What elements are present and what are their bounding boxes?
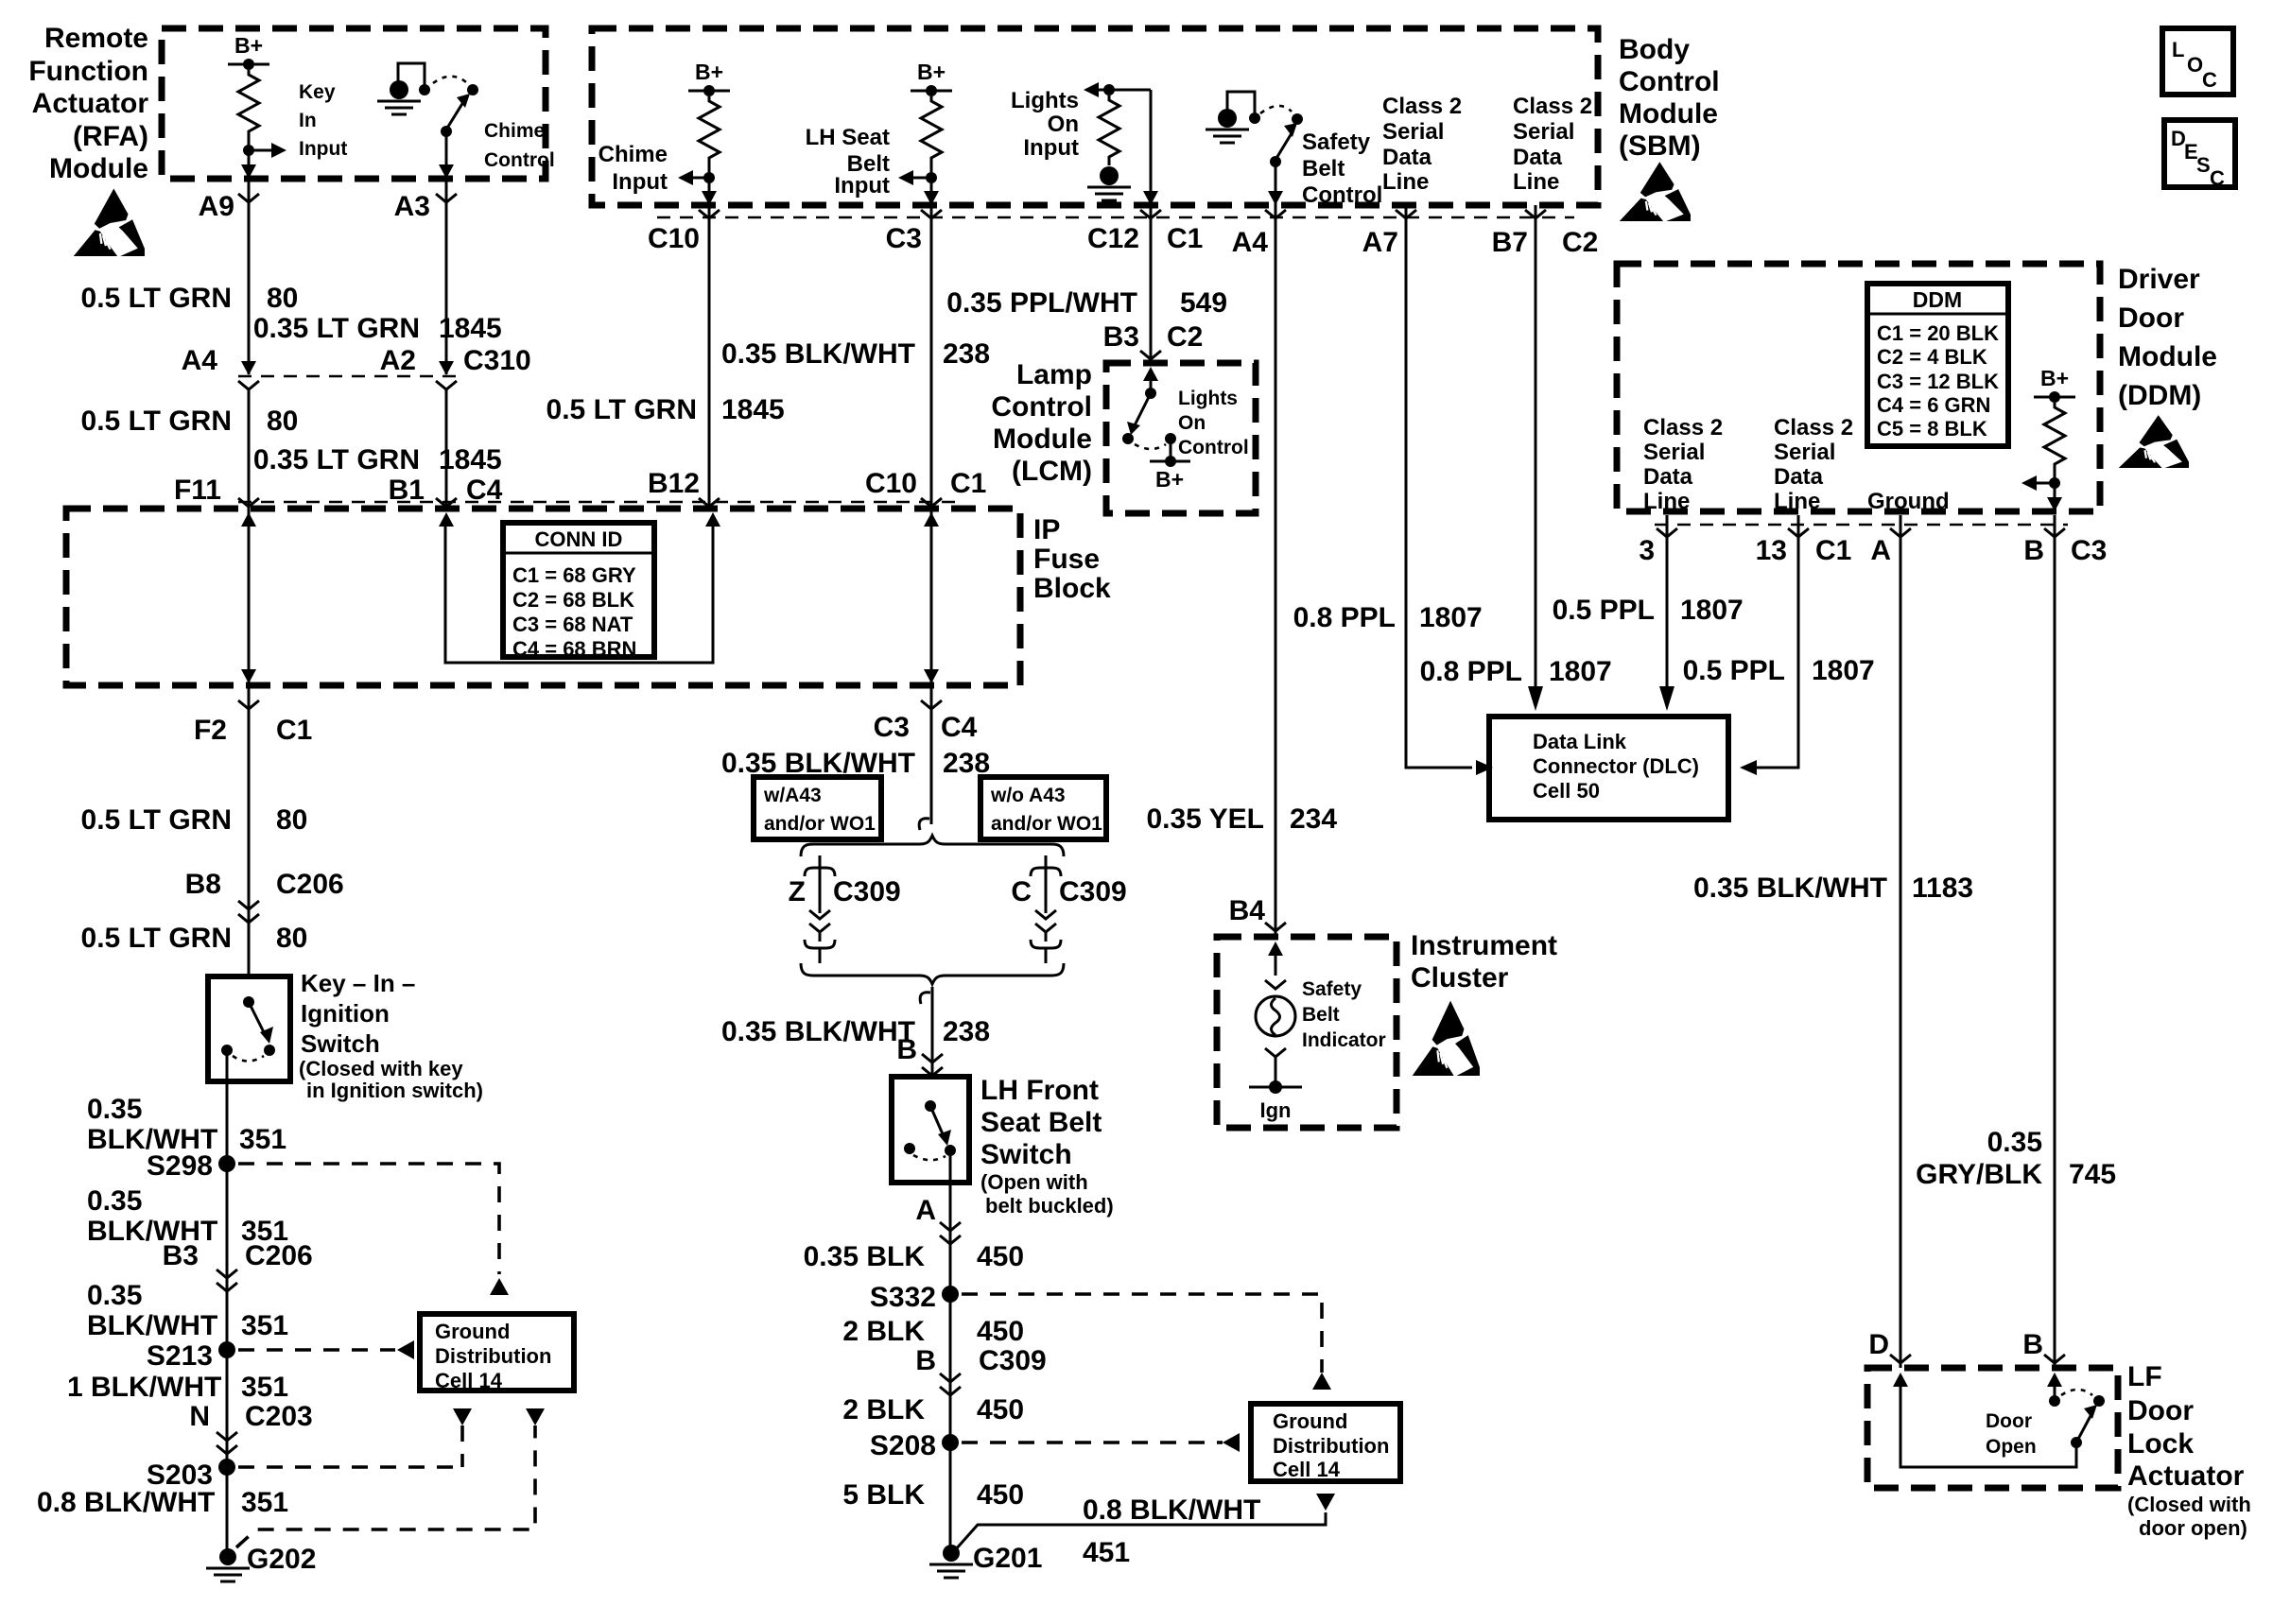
svg-text:238: 238 [943,338,990,370]
svg-text:2 BLK: 2 BLK [842,1394,925,1425]
wire 80 A9-A4 [248,179,251,374]
svg-text:0.5 LT GRN: 0.5 LT GRN [81,283,232,314]
wire chime down [708,166,711,205]
lights on input arrow/wire [1084,82,1099,97]
svg-text:1845: 1845 [439,444,502,475]
CONN ID table [503,523,654,661]
svg-text:C1 = 68 GRY: C1 = 68 GRY [512,563,636,587]
svg-text:80: 80 [276,804,307,836]
svg-text:C309: C309 [1059,876,1127,907]
svg-text:Line: Line [1774,489,1820,514]
splice S298 [218,1155,235,1172]
safety belt control ground [1227,92,1255,115]
svg-text:and/or WO1: and/or WO1 [991,813,1102,835]
SBM seat belt B+ [911,90,952,93]
SBM module box [592,28,1598,205]
key-in ignition switch box [208,976,290,1081]
svg-text:Module: Module [49,153,148,184]
svg-text:CONN ID: CONN ID [535,527,623,551]
key in input label [299,81,347,160]
chime pass-through wire in IP block [439,512,454,527]
wire 1183 A-D [1900,515,1902,1368]
svg-text:DDM: DDM [1913,287,1962,312]
svg-text:Actuator: Actuator [32,88,149,119]
svg-text:1845: 1845 [721,394,785,425]
svg-text:(Closed with key: (Closed with key [299,1057,463,1080]
svg-text:B7: B7 [1492,227,1528,258]
svg-text:Block: Block [1033,573,1111,604]
wire safety belt down [1275,162,1277,205]
svg-text:C10: C10 [865,468,917,499]
svg-text:C: C [2202,68,2217,92]
svg-text:80: 80 [276,923,307,954]
wire 745 B-B [2054,515,2056,1368]
svg-text:Data: Data [1513,145,1563,170]
svg-text:0.5 LT GRN: 0.5 LT GRN [81,406,232,437]
key-in switch internals [243,996,254,1008]
svg-text:0.35 LT GRN: 0.35 LT GRN [253,444,420,475]
svg-text:C203: C203 [245,1401,313,1432]
svg-text:A7: A7 [1362,227,1398,258]
svg-text:LH Seat: LH Seat [806,125,890,150]
svg-text:O: O [2187,53,2203,77]
svg-text:549: 549 [1180,287,1227,319]
svg-text:C310: C310 [463,345,531,376]
svg-text:Door: Door [2118,302,2184,334]
svg-text:450: 450 [977,1394,1024,1425]
svg-text:1807: 1807 [1549,656,1612,687]
svg-text:Ground: Ground [435,1320,510,1343]
svg-text:Lamp: Lamp [1016,359,1092,390]
connector F2 C1 [238,700,259,709]
svg-text:0.35: 0.35 [87,1185,142,1217]
wire 238 below IP [930,709,933,824]
svg-text:Data: Data [1774,464,1824,490]
connector line C310 [238,375,457,378]
svg-text:Data: Data [1382,145,1432,170]
svg-text:Belt: Belt [1302,1004,1340,1026]
svg-text:Fuse: Fuse [1033,544,1100,575]
svg-text:IP: IP [1033,514,1060,545]
ground G201 [943,1545,960,1562]
svg-text:C206: C206 [245,1240,313,1271]
svg-text:1183: 1183 [1912,872,1973,904]
svg-text:351: 351 [239,1124,286,1155]
svg-text:Serial: Serial [1382,119,1444,145]
svg-text:C12: C12 [1087,223,1139,254]
chime input junction + arrow [703,172,715,183]
svg-text:234: 234 [1290,803,1337,835]
connector C3 C4 [921,700,942,709]
svg-text:Input: Input [612,169,668,195]
wire 451 [955,1512,1326,1550]
svg-text:C4 = 68 BRN: C4 = 68 BRN [512,637,636,661]
svg-text:Door: Door [1986,1410,2032,1432]
svg-text:Input: Input [834,173,890,199]
svg-text:Chime: Chime [484,120,545,142]
svg-text:Distribution: Distribution [435,1344,551,1368]
svg-text:Serial: Serial [1643,440,1705,465]
svg-text:Lock: Lock [2127,1428,2194,1460]
svg-text:Ign: Ign [1260,1098,1292,1122]
svg-text:Class 2: Class 2 [1382,94,1462,119]
svg-text:G202: G202 [247,1544,316,1575]
lower brace [801,963,1064,984]
svg-text:0.35: 0.35 [87,1280,142,1311]
svg-text:0.8 PPL: 0.8 PPL [1420,656,1522,687]
dashed S203 to ground dist [238,1465,462,1469]
svg-text:451: 451 [1083,1537,1130,1568]
wire 1807 A7-DLC [1406,205,1472,768]
svg-text:0.8 PPL: 0.8 PPL [1293,602,1396,633]
RFA chime switch [467,84,478,95]
connector D [1890,1355,1911,1363]
DDM junction + arrow [2049,477,2060,489]
svg-text:A4: A4 [1232,227,1269,258]
svg-text:B12: B12 [648,468,700,499]
svg-text:and/or WO1: and/or WO1 [764,813,876,835]
svg-text:in Ignition switch): in Ignition switch) [306,1079,483,1102]
svg-text:LF: LF [2127,1361,2162,1392]
svg-text:C5 = 8 BLK: C5 = 8 BLK [1877,417,1987,441]
svg-text:450: 450 [977,1241,1024,1272]
svg-text:C3: C3 [874,712,910,743]
svg-text:1807: 1807 [1812,655,1875,686]
connector line below SBM [657,216,1574,219]
svg-text:C2 = 4 BLK: C2 = 4 BLK [1877,345,1987,369]
svg-text:Control: Control [991,391,1092,423]
ground G202 [219,1548,236,1565]
DDM module box [1617,264,2100,511]
cluster arrow in [1268,942,1283,956]
actuator switch [2071,1437,2082,1448]
lights on ground dot [1100,166,1119,185]
wire RFA chime down [445,131,448,179]
svg-text:Line: Line [1382,169,1429,195]
svg-text:A: A [915,1195,936,1226]
svg-text:C: C [1011,876,1032,907]
svg-text:Input: Input [1023,135,1079,161]
svg-text:Instrument: Instrument [1411,930,1557,961]
connector line above IP fuse block [238,501,955,504]
svg-text:B3: B3 [163,1240,199,1271]
svg-text:C3 = 68 NAT: C3 = 68 NAT [512,613,633,636]
svg-text:B+: B+ [1155,467,1184,492]
door open label [1986,1410,2037,1458]
svg-text:door open): door open) [2139,1516,2247,1540]
svg-text:belt buckled): belt buckled) [985,1194,1114,1218]
svg-text:Switch: Switch [301,1029,380,1058]
svg-text:LH Front: LH Front [980,1075,1099,1106]
svg-text:351: 351 [241,1372,288,1403]
svg-text:Serial: Serial [1774,440,1835,465]
svg-text:B+: B+ [695,60,723,84]
ground distribution box right [1251,1404,1400,1481]
svg-text:C3: C3 [886,223,922,254]
svg-text:B+: B+ [917,60,946,84]
svg-text:Z: Z [789,876,806,907]
splice S203 [218,1459,235,1476]
Z C309 connector [819,855,822,871]
wire 1807 B7-DLC [1535,205,1537,688]
LH front seat belt switch label [980,1075,1114,1218]
RFA module label [28,23,148,184]
svg-text:C4: C4 [941,712,978,743]
ground distribution box left [420,1314,574,1392]
svg-text:L: L [2172,38,2184,61]
DDM class 2 label 2 [1774,415,1853,514]
svg-text:Lights: Lights [1178,388,1238,409]
svg-text:0.35 BLK: 0.35 BLK [804,1241,926,1272]
svg-text:C1: C1 [276,715,312,746]
svg-text:0.35 BLK/WHT: 0.35 BLK/WHT [721,1016,915,1047]
wire RFA key-in down [248,140,251,179]
LCM module box [1106,363,1256,513]
svg-text:GRY/BLK: GRY/BLK [1916,1159,2042,1190]
wire 238 C3-C10 [930,205,933,509]
svg-text:On: On [1178,412,1206,434]
svg-text:Driver: Driver [2118,264,2200,295]
svg-text:0.5 PPL: 0.5 PPL [1553,595,1655,626]
wire 80 below C310 [238,381,259,389]
connector A4 [1265,210,1286,218]
LCM switch arrow up [1143,367,1158,381]
svg-text:C1: C1 [950,468,986,499]
svg-text:Data Link: Data Link [1533,730,1627,753]
resistor RFA key-in [238,70,259,140]
connector C10 (chime) [699,210,720,218]
svg-text:1 BLK/WHT: 1 BLK/WHT [67,1372,221,1403]
SBM module label [1619,34,1720,162]
svg-text:5 BLK: 5 BLK [842,1479,925,1511]
svg-text:(DDM): (DDM) [2118,380,2201,411]
resistor DDM [2044,403,2065,473]
ESD symbol cluster [1413,1001,1480,1076]
svg-text:Control: Control [1178,437,1249,458]
svg-text:0.8 BLK/WHT: 0.8 BLK/WHT [1083,1494,1260,1526]
safety belt indicator lamp [1256,996,1295,1036]
instrument cluster label [1411,930,1557,993]
wire 1807 pin13-DLC [1745,515,1798,768]
svg-text:Line: Line [1643,489,1690,514]
svg-text:In: In [299,110,317,131]
C C309 connector [1045,855,1048,871]
ign ground [1249,1086,1302,1089]
svg-text:Key – In –: Key – In – [301,969,415,997]
svg-text:Module: Module [2118,341,2217,372]
svg-text:B: B [896,1034,917,1065]
svg-text:C1: C1 [1815,535,1851,566]
lights on input label [1011,88,1079,161]
key-in ignition switch label [299,969,483,1102]
svg-text:Ignition: Ignition [301,999,390,1028]
svg-text:S332: S332 [870,1282,936,1313]
LCM module label [991,359,1092,487]
chime control label [484,120,555,171]
svg-text:Remote: Remote [44,23,148,54]
wire 80 F2-B8 [248,709,251,976]
safety belt control label [1302,130,1382,208]
dashed S208 to ground dist right [962,1441,1223,1444]
dashed S213 to ground dist [238,1348,395,1352]
svg-text:(Closed with: (Closed with [2127,1493,2251,1516]
svg-text:D: D [1868,1329,1889,1360]
svg-text:Connector (DLC): Connector (DLC) [1533,754,1699,778]
svg-text:B: B [915,1345,936,1376]
svg-text:0.5 PPL: 0.5 PPL [1683,655,1785,686]
connector A (ground) [1890,528,1911,537]
svg-text:G201: G201 [973,1543,1042,1574]
wire key-in through IP block [241,512,256,527]
svg-text:B+: B+ [234,33,263,58]
svg-text:Module: Module [1619,98,1718,130]
dashed S298 to ground dist [238,1164,499,1274]
svg-text:(LCM): (LCM) [1012,456,1092,487]
svg-text:(SBM): (SBM) [1619,130,1701,162]
svg-text:C309: C309 [833,876,901,907]
wire 234 A4-B4 [1275,205,1277,937]
svg-text:C10: C10 [648,223,700,254]
svg-text:0.35: 0.35 [1987,1127,2042,1158]
ESD symbol DDM [2119,415,2189,468]
wire 549 C12-B3 [1150,205,1153,363]
connector A9 [238,194,259,202]
connector 3 [1657,528,1677,537]
svg-text:Function: Function [28,56,148,87]
svg-text:0.35 PPL/WHT: 0.35 PPL/WHT [946,287,1137,319]
svg-text:Safety: Safety [1302,130,1371,155]
svg-text:C309: C309 [979,1345,1047,1376]
LCM B+ [1170,439,1172,461]
svg-text:On: On [1048,112,1079,137]
svg-text:A9: A9 [199,191,234,222]
SBM chime B+ [688,90,730,93]
svg-text:Cluster: Cluster [1411,962,1509,993]
svg-text:Actuator: Actuator [2127,1460,2245,1492]
svg-text:238: 238 [943,1016,990,1047]
connector C12 C1 [1140,210,1161,218]
LCM switch [1145,388,1156,399]
svg-text:0.5 LT GRN: 0.5 LT GRN [81,804,232,836]
svg-text:N: N [189,1401,210,1432]
svg-text:Class 2: Class 2 [1643,415,1723,441]
svg-text:Cell 14: Cell 14 [1273,1458,1341,1481]
connector B (actuator) [2044,1355,2065,1363]
svg-text:1807: 1807 [1419,602,1483,633]
svg-text:351: 351 [241,1310,288,1341]
svg-text:C206: C206 [276,869,344,900]
DDM table [1867,284,2008,446]
svg-text:0.5 LT GRN: 0.5 LT GRN [547,394,697,425]
svg-text:Line: Line [1513,169,1559,195]
RFA B+ [228,63,269,66]
DDM module label [2118,264,2217,411]
svg-text:w/A43: w/A43 [763,785,822,806]
svg-text:Control: Control [1619,66,1720,97]
actuator D wire [1893,1373,1908,1387]
svg-text:S208: S208 [870,1430,936,1461]
ESD symbol RFA [74,188,145,256]
RFA chime ground [398,63,425,87]
svg-text:B: B [2023,535,2044,566]
svg-text:Lights: Lights [1011,88,1079,113]
connector line below DDM [1655,524,2068,527]
safety belt indicator label [1302,978,1386,1051]
svg-text:(RFA): (RFA) [73,121,148,152]
svg-text:S298: S298 [147,1150,213,1182]
svg-text:(Open with: (Open with [980,1170,1088,1194]
svg-text:Ground: Ground [1867,489,1950,514]
svg-text:Belt: Belt [1302,156,1345,181]
svg-text:F11: F11 [174,475,221,506]
splice S213 [218,1341,235,1358]
resistor chime input [699,96,720,166]
svg-text:B8: B8 [185,869,221,900]
svg-text:Indicator: Indicator [1302,1029,1386,1051]
svg-text:13: 13 [1756,535,1787,566]
svg-text:A2: A2 [380,345,416,376]
svg-text:B: B [2022,1329,2043,1360]
resistor LH seat belt input [921,96,942,166]
svg-text:C2 = 68 BLK: C2 = 68 BLK [512,588,634,612]
wire below seat belt switch [949,1150,952,1557]
safety belt control switch [1292,113,1303,125]
svg-text:351: 351 [241,1487,288,1518]
svg-text:A3: A3 [394,191,430,222]
RFA module box [162,28,546,179]
svg-text:BLK/WHT: BLK/WHT [87,1310,217,1341]
instrument cluster box [1217,937,1397,1128]
svg-text:A4: A4 [182,345,218,376]
ESD symbol SBM [1620,162,1691,221]
splice S332 [942,1286,959,1303]
svg-text:80: 80 [267,406,298,437]
connector 13 C1 [1788,528,1809,537]
svg-text:B1: B1 [389,475,425,506]
connector A7 [1396,210,1416,218]
connector C3 (seat belt) [921,210,942,218]
svg-text:2 BLK: 2 BLK [842,1316,925,1347]
svg-text:C1: C1 [1167,223,1203,254]
svg-text:0.35: 0.35 [87,1094,142,1125]
svg-text:C2: C2 [1167,321,1203,353]
svg-text:1845: 1845 [439,313,502,344]
resistor lights on input [1099,95,1119,165]
svg-text:Serial: Serial [1513,119,1574,145]
svg-text:Control: Control [484,149,555,171]
svg-text:C3: C3 [2071,535,2107,566]
svg-text:Class 2: Class 2 [1513,94,1592,119]
LOC box [2162,28,2233,95]
wire 1845 A3-A2 [445,179,448,374]
class 2 serial data line label 1 [1382,94,1462,195]
LH seat belt input label [806,125,890,199]
svg-text:0.35 YEL: 0.35 YEL [1146,803,1264,835]
upper brace [801,836,1064,856]
DDM B+ [2034,396,2075,399]
class 2 serial data line label 2 [1513,94,1592,195]
svg-text:S213: S213 [147,1340,213,1372]
wire 1845 below C310 [436,381,457,389]
lights on control label [1178,388,1249,458]
w/A43 option box [754,777,881,839]
svg-text:B3: B3 [1103,321,1139,353]
svg-text:80: 80 [267,283,298,314]
connector B C3 [2044,528,2065,537]
wire 238 to switch [920,993,930,1004]
svg-text:Cell 50: Cell 50 [1533,779,1600,803]
svg-text:0.35 LT GRN: 0.35 LT GRN [253,313,420,344]
